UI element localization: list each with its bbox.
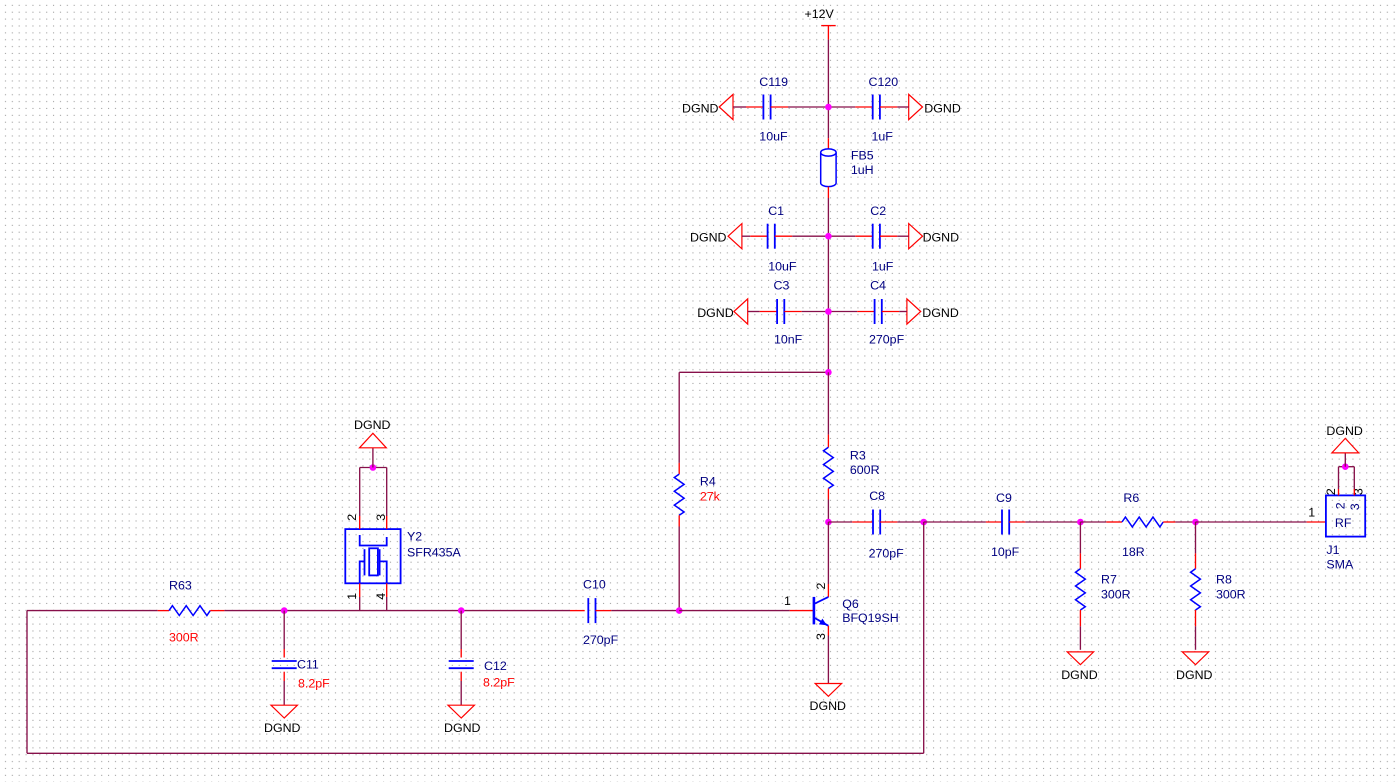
- svg-text:10uF: 10uF: [759, 130, 788, 144]
- svg-text:10uF: 10uF: [768, 259, 797, 273]
- svg-text:SMA: SMA: [1326, 558, 1354, 572]
- svg-text:C12: C12: [484, 659, 507, 673]
- svg-text:J1: J1: [1326, 543, 1339, 557]
- svg-text:8.2pF: 8.2pF: [298, 677, 330, 691]
- svg-text:DGND: DGND: [923, 231, 960, 245]
- svg-text:270pF: 270pF: [869, 332, 905, 346]
- svg-text:18R: 18R: [1122, 545, 1145, 559]
- svg-text:10pF: 10pF: [991, 545, 1020, 559]
- svg-text:DGND: DGND: [810, 699, 847, 713]
- svg-text:27k: 27k: [700, 489, 721, 503]
- svg-text:Y2: Y2: [407, 530, 422, 544]
- svg-text:2: 2: [1334, 502, 1348, 509]
- svg-text:C11: C11: [297, 658, 319, 672]
- svg-text:Q6: Q6: [842, 597, 859, 611]
- svg-text:3: 3: [1348, 503, 1362, 510]
- svg-text:DGND: DGND: [690, 231, 727, 245]
- svg-text:DGND: DGND: [924, 101, 961, 115]
- svg-text:C119: C119: [759, 75, 788, 89]
- svg-text:300R: 300R: [169, 631, 199, 645]
- svg-text:R7: R7: [1101, 573, 1117, 587]
- svg-text:1uF: 1uF: [872, 130, 894, 144]
- svg-text:DGND: DGND: [444, 721, 481, 735]
- svg-text:BFQ19SH: BFQ19SH: [842, 611, 898, 625]
- svg-text:DGND: DGND: [682, 101, 719, 115]
- svg-text:C2: C2: [870, 204, 886, 218]
- svg-text:R63: R63: [169, 579, 192, 593]
- svg-text:C3: C3: [774, 278, 790, 292]
- svg-text:2: 2: [814, 583, 828, 590]
- svg-text:4: 4: [374, 593, 388, 600]
- svg-text:RF: RF: [1335, 516, 1352, 530]
- svg-text:600R: 600R: [850, 463, 880, 477]
- svg-text:1uH: 1uH: [851, 163, 874, 177]
- svg-text:270pF: 270pF: [583, 633, 619, 647]
- svg-text:270pF: 270pF: [869, 547, 905, 561]
- svg-text:C8: C8: [869, 489, 885, 503]
- svg-text:DGND: DGND: [697, 306, 734, 320]
- svg-text:3: 3: [814, 633, 828, 640]
- svg-text:DGND: DGND: [264, 721, 301, 735]
- svg-text:R6: R6: [1123, 491, 1139, 505]
- svg-text:3: 3: [1351, 488, 1365, 495]
- svg-text:DGND: DGND: [1061, 668, 1098, 682]
- svg-text:C9: C9: [996, 491, 1012, 505]
- svg-text:+12V: +12V: [805, 7, 835, 21]
- svg-text:C4: C4: [870, 278, 886, 292]
- svg-text:DGND: DGND: [1326, 424, 1363, 438]
- svg-text:SFR435A: SFR435A: [407, 546, 461, 560]
- svg-text:300R: 300R: [1216, 588, 1246, 602]
- svg-text:1: 1: [345, 593, 359, 600]
- svg-text:C120: C120: [869, 75, 899, 89]
- svg-text:DGND: DGND: [354, 418, 391, 432]
- svg-text:FB5: FB5: [851, 148, 874, 162]
- svg-text:C1: C1: [768, 204, 784, 218]
- svg-text:R8: R8: [1216, 573, 1232, 587]
- svg-text:R3: R3: [850, 448, 866, 462]
- svg-text:DGND: DGND: [922, 306, 959, 320]
- svg-text:8.2pF: 8.2pF: [483, 676, 515, 690]
- svg-text:1: 1: [784, 594, 791, 608]
- svg-text:10nF: 10nF: [774, 332, 803, 346]
- svg-text:2: 2: [345, 514, 359, 521]
- svg-text:1: 1: [1308, 505, 1315, 519]
- svg-text:3: 3: [374, 514, 388, 521]
- svg-text:DGND: DGND: [1176, 668, 1213, 682]
- svg-text:300R: 300R: [1101, 588, 1131, 602]
- svg-text:2: 2: [1324, 488, 1338, 495]
- svg-text:C10: C10: [583, 578, 606, 592]
- svg-text:1uF: 1uF: [872, 259, 894, 273]
- svg-text:R4: R4: [700, 474, 716, 488]
